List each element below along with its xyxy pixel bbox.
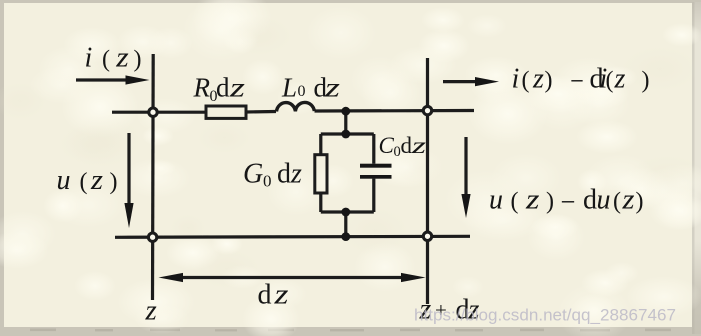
svg-text:z: z bbox=[115, 43, 129, 74]
svg-text:z: z bbox=[410, 133, 426, 158]
svg-text:–: – bbox=[571, 64, 584, 95]
svg-text:(: ( bbox=[613, 189, 621, 215]
svg-text:d: d bbox=[258, 280, 272, 311]
svg-text:): ) bbox=[546, 189, 554, 215]
svg-text:i: i bbox=[512, 64, 520, 95]
svg-text:(: ( bbox=[102, 47, 110, 73]
svg-text:i: i bbox=[85, 43, 93, 74]
svg-text:): ) bbox=[636, 189, 644, 215]
svg-text:u: u bbox=[597, 185, 611, 216]
svg-text:z: z bbox=[614, 64, 626, 95]
svg-text:d: d bbox=[583, 185, 597, 216]
svg-text:d: d bbox=[401, 133, 413, 158]
svg-text:): ) bbox=[134, 47, 142, 73]
svg-text:z: z bbox=[145, 295, 157, 327]
svg-text:(: ( bbox=[511, 189, 519, 215]
svg-text:0: 0 bbox=[263, 172, 272, 191]
svg-text:z: z bbox=[90, 165, 103, 196]
svg-text:z: z bbox=[273, 280, 288, 311]
svg-text:L: L bbox=[281, 73, 297, 103]
svg-text:z: z bbox=[324, 73, 341, 103]
svg-text:(: ( bbox=[522, 68, 530, 94]
svg-text:z: z bbox=[229, 73, 246, 103]
svg-text:R: R bbox=[193, 73, 211, 103]
svg-text:G: G bbox=[243, 159, 263, 190]
svg-text:C: C bbox=[379, 133, 395, 158]
svg-text:d: d bbox=[216, 73, 230, 103]
svg-text:(: ( bbox=[606, 68, 614, 94]
svg-text:d: d bbox=[277, 159, 291, 190]
svg-text:u: u bbox=[57, 165, 71, 196]
svg-text:z: z bbox=[621, 185, 634, 216]
svg-text:(: ( bbox=[80, 169, 88, 195]
svg-text:z: z bbox=[525, 185, 540, 216]
svg-text:): ) bbox=[642, 68, 650, 94]
svg-text:u: u bbox=[489, 185, 503, 216]
svg-text:https://blog.csdn.net/qq_28867: https://blog.csdn.net/qq_28867467 bbox=[414, 307, 676, 325]
svg-text:z: z bbox=[532, 64, 544, 95]
svg-text:–: – bbox=[561, 185, 575, 216]
svg-text:): ) bbox=[110, 169, 118, 195]
svg-text:0: 0 bbox=[298, 83, 306, 100]
svg-text:): ) bbox=[545, 68, 553, 94]
svg-text:z: z bbox=[290, 159, 302, 190]
